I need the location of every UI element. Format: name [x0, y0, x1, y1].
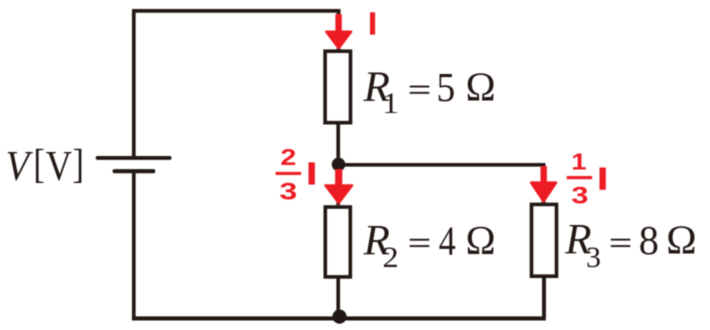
wire middle node down to R2 top — [336, 164, 340, 205]
wire right corner down to R3 top — [542, 163, 546, 203]
svg-text:Ω: Ω — [666, 216, 696, 262]
wire bottom horizontal — [132, 316, 546, 320]
label R1 = 5 ohm — [363, 64, 496, 120]
label V[V] — [6, 142, 84, 190]
wire down into R1 top — [337, 9, 341, 49]
current arrow I into R1 — [326, 14, 351, 48]
resistor R2 — [325, 207, 350, 277]
svg-text:3: 3 — [586, 241, 601, 274]
wire R3 bottom to bottom wire — [542, 277, 546, 318]
wire top-left vertical (battery + to top corner) — [132, 11, 136, 156]
wire R1 bottom to middle node — [336, 124, 340, 164]
svg-text:[: [ — [33, 142, 44, 187]
resistor R1 — [325, 51, 350, 123]
svg-text:3: 3 — [571, 181, 588, 208]
resistor R3 — [532, 204, 557, 276]
label I (red, top) — [370, 12, 375, 34]
svg-text:V: V — [6, 143, 34, 190]
svg-text:8: 8 — [639, 218, 659, 264]
svg-text:1: 1 — [571, 149, 586, 175]
current arrow 2/3 I into R2 — [325, 169, 352, 203]
battery V short plate — [115, 169, 154, 173]
svg-text:3: 3 — [279, 178, 297, 206]
label R3 = 8 ohm — [564, 216, 696, 274]
svg-text:Ω: Ω — [466, 64, 496, 110]
svg-text:2: 2 — [280, 144, 296, 171]
label 1/3 I (red) — [567, 149, 606, 208]
node junction (middle) — [332, 158, 346, 172]
svg-text:V: V — [46, 144, 72, 190]
label 2/3 I (red) — [276, 144, 315, 206]
node junction (bottom) — [332, 310, 346, 324]
svg-text:]: ] — [72, 142, 83, 187]
wire middle node to right corner — [338, 163, 543, 167]
wire bottom-left vertical (battery - to bottom corner) — [132, 171, 136, 318]
battery V long plate — [98, 156, 170, 160]
svg-text:5: 5 — [437, 64, 456, 110]
current arrow 1/3 I into R3 — [531, 166, 556, 201]
svg-text:1: 1 — [382, 87, 399, 120]
svg-text:Ω: Ω — [466, 218, 496, 264]
svg-text:2: 2 — [383, 240, 399, 274]
svg-text:4: 4 — [439, 219, 456, 265]
label R2 = 4 ohm — [363, 217, 496, 273]
wire top horizontal — [132, 9, 340, 13]
wire R2 bottom to bottom node — [336, 278, 340, 318]
